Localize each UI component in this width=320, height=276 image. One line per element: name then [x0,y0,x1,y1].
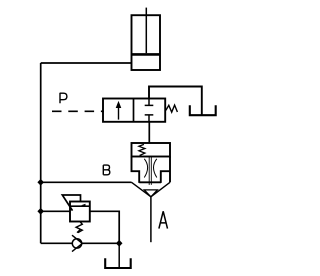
relief valve V2 flow arrowhead [81,204,85,206]
vacuum generator U1 vacuum triangle [144,190,157,197]
relief valve V2 inner channel line [70,205,90,207]
check valve V3 ball [72,239,81,248]
relief valve V2 adjustment flag [62,195,80,211]
label A (port A) [159,211,168,228]
cylinder piston rod [145,8,147,54]
cylinder piston [132,53,160,56]
wire node B to vacuum generator [41,181,132,183]
wire valve top port to exhaust tank [149,87,202,116]
valve V1 right cell blocked port top [145,99,154,106]
tank T2 (drain reservoir) [105,258,131,268]
valve V1 left cell flow arrow [118,105,120,120]
vacuum generator U1 lower chamber walls [132,157,140,183]
valve V1 right cell blocked port bottom [145,115,154,122]
wire node to relief valve inlet [41,210,70,212]
cylinder Z1 body [132,15,161,70]
valve V1 position divider [133,99,135,122]
wire left rail vertical [40,63,42,243]
vacuum generator U1 bottom line [139,181,161,183]
wire check valve to junction [82,242,119,244]
valve V1 body [103,99,165,122]
pilot line p (dashed) [52,110,104,112]
vacuum generator U1 internal spring [139,144,145,155]
wire cylinder port to left rail [41,62,132,64]
vacuum generator U1 venturi throat curves [144,159,157,178]
check valve V3 seat [72,235,82,251]
check valve V3 spring tick [77,230,80,233]
vacuum generator U1 upper chamber [132,143,171,157]
wire valve bottom port to vacuum generator [148,122,150,143]
node junction relief on left rail [37,208,44,215]
valve V1 return spring [166,105,178,112]
wire check valve line [41,242,72,244]
wire relief valve outlet [90,211,119,243]
wire port A line [150,197,152,242]
node junction B on left rail [37,179,44,186]
tank T1 (exhaust reservoir) [190,105,216,115]
relief valve V2 body [70,202,90,222]
node junction at tank drop [116,240,123,247]
label B (port B) [103,165,110,175]
relief valve V2 spring [76,222,82,233]
label p (pilot port) [60,93,67,104]
vacuum generator U1 nozzle tube [149,157,151,185]
wire junction down into tank [118,243,120,267]
vacuum generator U1 suction funnel [132,182,171,197]
